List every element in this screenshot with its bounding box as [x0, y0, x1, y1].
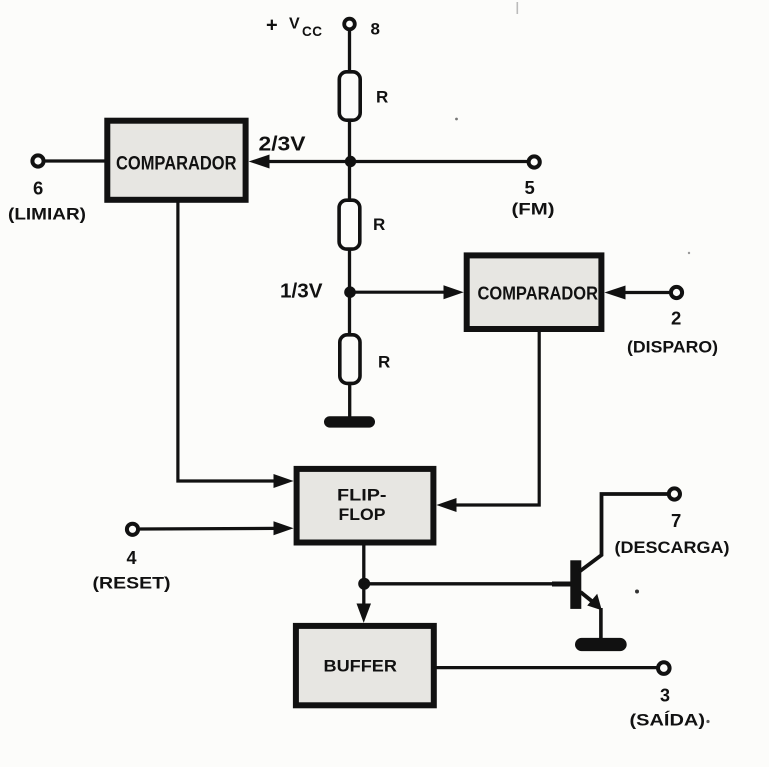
pin number 8 [371, 20, 380, 39]
pin number 6 [33, 178, 43, 199]
net label 2/3V [259, 134, 307, 156]
svg-text:8: 8 [371, 20, 380, 39]
svg-text:R: R [378, 353, 390, 372]
terminal pin 5 [529, 156, 540, 167]
scan speck [455, 2, 710, 723]
svg-text:(LIMIAR): (LIMIAR) [8, 205, 86, 224]
resistor R2 [339, 200, 360, 249]
svg-text:6: 6 [33, 178, 43, 199]
terminal pin 2 [671, 287, 682, 298]
pin name (RESET) [93, 574, 171, 593]
wire pin6 to U1 [46, 159, 106, 162]
resistor R1 [339, 72, 360, 120]
wire R1 to node A [348, 120, 351, 162]
svg-text:1/3V: 1/3V [280, 281, 323, 303]
svg-text:7: 7 [671, 510, 681, 531]
comparador U2 box [467, 255, 602, 329]
pin name (SAIDA) [630, 711, 706, 730]
svg-text:+: + [266, 15, 278, 37]
svg-text:(DISPARO): (DISPARO) [627, 338, 718, 357]
svg-text:(RESET): (RESET) [93, 574, 171, 593]
wire node B to comparator U2 with arrow [350, 285, 464, 299]
svg-text:(DESCARGA): (DESCARGA) [615, 538, 730, 557]
svg-text:BUFFER: BUFFER [324, 657, 398, 676]
wire node A to comparator U1 with arrow [249, 155, 351, 169]
wire node B to R3 [348, 292, 351, 334]
svg-text:(FM): (FM) [512, 200, 555, 219]
wire R2 to node B [348, 249, 351, 292]
comparador U1 box [107, 121, 245, 200]
svg-text:(SAÍDA): (SAÍDA) [630, 711, 706, 730]
pin number 3 [660, 686, 670, 706]
svg-text:4: 4 [127, 548, 137, 568]
svg-text:V: V [289, 16, 300, 33]
net label 1/3V [280, 281, 323, 303]
svg-text:CC: CC [302, 24, 323, 39]
resistor R3 [340, 335, 360, 384]
wire pin4 to flip-flop with arrow [140, 521, 294, 535]
pin number 2 [671, 308, 681, 329]
terminal pin 3 [658, 662, 670, 674]
ground GND2 [575, 638, 627, 651]
pin number 7 [671, 510, 681, 531]
svg-text:2: 2 [671, 308, 681, 329]
node B junction 1/3V [344, 286, 356, 298]
net +Vcc label [266, 15, 323, 40]
value label R (R2) [373, 215, 385, 234]
node C junction [358, 578, 370, 590]
wire node C to buffer with arrow [357, 584, 372, 623]
pin number 4 [127, 548, 137, 568]
flip-flop U3 box [297, 469, 434, 543]
svg-text:COMPARADOR: COMPARADOR [478, 284, 599, 304]
wire U2 to flip-flop with arrow [436, 331, 539, 512]
pin name (FM) [512, 200, 555, 219]
terminal pin 6 [32, 155, 43, 166]
value label R (R3) [378, 353, 390, 372]
svg-text:R: R [373, 215, 385, 234]
transistor Q1 base bar [570, 560, 581, 609]
svg-text:COMPARADOR: COMPARADOR [116, 154, 237, 175]
transistor Q1 emitter with arrow [581, 592, 602, 639]
transistor Q1 collector [580, 494, 668, 572]
buffer U4 box [296, 626, 434, 705]
wire flip-flop to node C [362, 542, 365, 584]
terminal pin 7 [669, 488, 680, 499]
wire node C to transistor base [364, 582, 570, 586]
svg-text:3: 3 [660, 686, 670, 706]
pin name (DISPARO) [627, 338, 718, 357]
svg-text:FLOP: FLOP [339, 505, 386, 524]
wire pin2 to U2 with arrow [604, 286, 669, 300]
wire node A to R2 [348, 162, 351, 200]
svg-text:2/3V: 2/3V [259, 134, 307, 156]
pin name (LIMIAR) [8, 205, 86, 224]
pin number 5 [525, 177, 535, 198]
node A junction 2/3V [345, 156, 356, 167]
wire R3 to ground [348, 383, 351, 418]
wire U1 to flip-flop with arrow [178, 202, 294, 488]
ground GND1 [324, 416, 375, 427]
svg-text:5: 5 [525, 177, 535, 198]
svg-text:FLIP-: FLIP- [337, 486, 387, 505]
terminal pin 8 [344, 19, 355, 30]
value label R (R1) [376, 88, 388, 107]
svg-text:R: R [376, 88, 388, 107]
terminal pin 4 [127, 524, 138, 535]
wire node A to pin 5 [351, 160, 528, 163]
wire buffer to pin 3 [435, 666, 657, 669]
wire pin8 to R1 [348, 31, 351, 72]
pin name (DESCARGA) [615, 538, 730, 557]
